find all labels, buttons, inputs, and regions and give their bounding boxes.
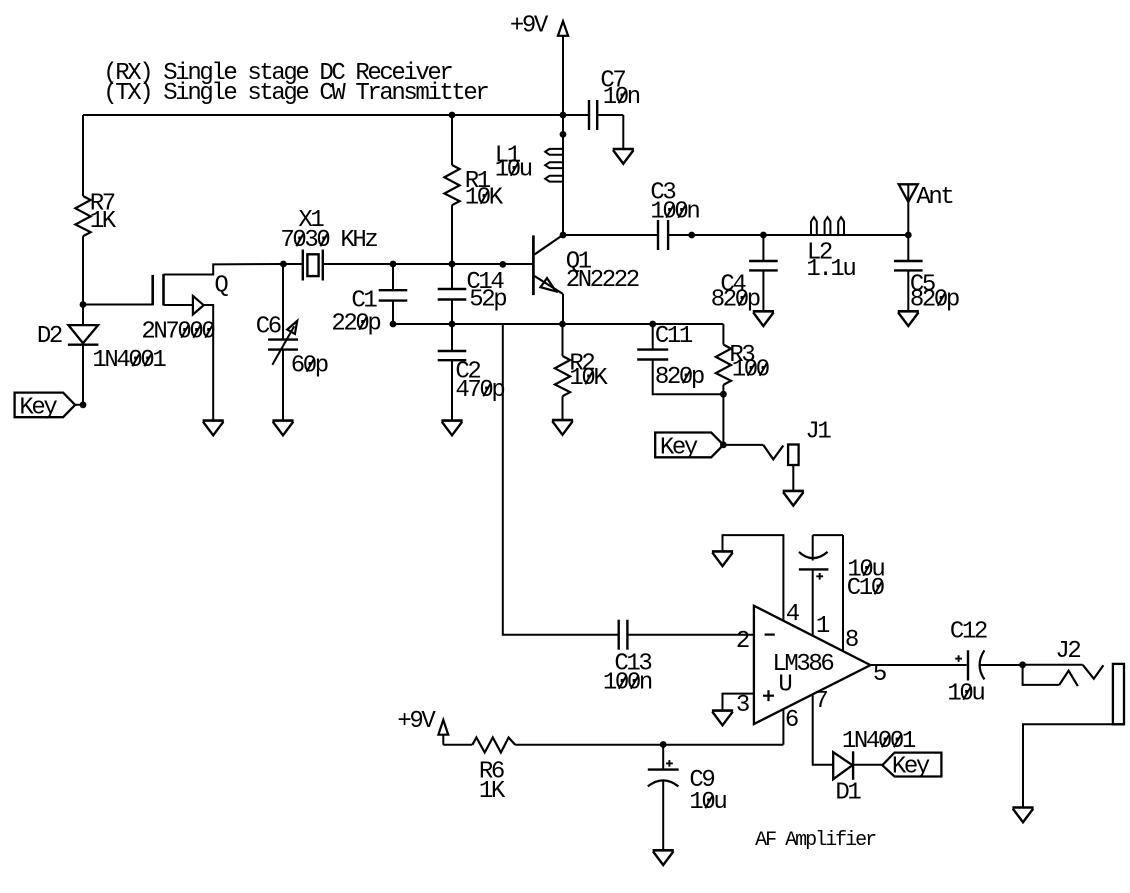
wire collector rail xyxy=(563,234,658,236)
wire C5 top lead xyxy=(907,235,909,261)
capacitor C9 xyxy=(648,760,727,816)
wire R3 bottom lead xyxy=(722,385,724,445)
pin 6 label xyxy=(785,707,798,734)
transistor Q1 emitter arrow xyxy=(541,278,556,291)
wire 2N7000 drain xyxy=(164,264,284,275)
svg-text:1: 1 xyxy=(816,613,830,640)
wire R3 top lead xyxy=(722,324,724,345)
wire X1 left lead xyxy=(283,263,302,265)
transistor Q1 collector xyxy=(534,235,563,255)
power +9V label (bottom) xyxy=(397,708,436,735)
wire C11 bottom lead xyxy=(653,360,724,395)
wire base rail X1 to Q1 xyxy=(323,263,534,265)
svg-text:D2: D2 xyxy=(37,323,62,350)
power +9V arrow (bottom) xyxy=(438,720,448,745)
svg-text:52p: 52p xyxy=(469,287,506,314)
wire C14 bottom lead xyxy=(451,300,453,325)
power +9V arrow (top) xyxy=(558,21,568,115)
wire C9 top lead xyxy=(662,745,664,770)
wire Key node to J1 xyxy=(723,444,763,446)
node junction (393,264) xyxy=(390,261,397,268)
pin 8 label xyxy=(845,627,858,654)
svg-text:+9V: +9V xyxy=(510,13,549,40)
power +9V label (top) xyxy=(510,13,549,40)
wire R7 top lead xyxy=(82,115,84,196)
label J2 xyxy=(1055,638,1080,665)
wire C1 bottom lead xyxy=(392,301,394,324)
svg-text:C6: C6 xyxy=(256,314,281,341)
jack J2 ring contact xyxy=(1059,671,1078,686)
wire Q1 emitter lead xyxy=(562,294,564,324)
wire mid rail y=324 xyxy=(393,323,723,325)
node junction (723.4,444.9) xyxy=(720,442,727,449)
label J1 xyxy=(805,419,831,446)
capacitor C2 xyxy=(438,351,505,404)
svg-text:2N2222: 2N2222 xyxy=(566,267,639,294)
wire C2 top lead xyxy=(451,324,453,351)
jack J2 tip contact xyxy=(1083,665,1104,679)
node junction (652.7,324) xyxy=(649,321,656,328)
svg-text:1K: 1K xyxy=(90,208,117,235)
wire tap to C13 xyxy=(503,324,618,635)
svg-text:220p: 220p xyxy=(331,311,380,338)
node junction (563,235) xyxy=(560,232,567,239)
antenna Ant symbol xyxy=(899,184,953,211)
capacitor C14 xyxy=(438,269,507,314)
wire C6 top lead xyxy=(282,264,284,340)
wire C4 top lead xyxy=(762,235,764,261)
wire R2 top lead xyxy=(562,324,564,356)
label C6 xyxy=(256,314,281,341)
wire D1 to Key flag xyxy=(853,764,882,766)
ground (2N7000 source) xyxy=(203,421,224,436)
capacitor C6 plates xyxy=(268,340,298,350)
flag Key (TX key) xyxy=(655,433,723,462)
jack J1 sleeve xyxy=(788,445,799,466)
jack J1 tip contact xyxy=(763,445,783,459)
resistor R6 xyxy=(472,738,515,806)
capacitor C1 xyxy=(331,288,407,338)
wire R7 to D2 xyxy=(82,236,84,325)
capacitor C4 xyxy=(711,261,778,314)
node junction (393,324) xyxy=(390,321,397,328)
title text line 2 xyxy=(103,80,488,107)
wire +9V column to L1 xyxy=(562,115,564,235)
pin 7 stub xyxy=(813,694,833,765)
transistor Q 2N7000 channel bar xyxy=(162,274,165,305)
label 2N7000 xyxy=(141,319,214,346)
flag Key (D1) xyxy=(882,753,941,781)
wire J2 ring lead xyxy=(1023,665,1060,685)
op-amp plus sign xyxy=(763,690,774,701)
capacitor C6 arrow xyxy=(272,321,297,365)
svg-text:Ant: Ant xyxy=(916,184,952,211)
flag Key (left) xyxy=(15,393,76,422)
node junction (562,324) xyxy=(559,321,566,328)
node junction (452,115) xyxy=(449,112,456,119)
transistor Q1 base bar xyxy=(532,235,535,295)
svg-text:J1: J1 xyxy=(805,419,831,446)
wire top rail y=115 xyxy=(83,114,563,116)
wire D2 to Key node xyxy=(82,345,84,405)
svg-text:7030 KHz: 7030 KHz xyxy=(280,227,377,254)
node junction (908.3,235) xyxy=(905,232,912,239)
svg-text:7: 7 xyxy=(814,688,827,715)
svg-text:J2: J2 xyxy=(1055,638,1080,665)
svg-text:Q: Q xyxy=(214,273,228,300)
node junction (691.7,235) xyxy=(688,232,695,239)
node junction (723.4,394.2) xyxy=(720,391,727,398)
ground (R2) xyxy=(552,420,573,435)
capacitor C3 xyxy=(650,180,699,251)
ground (J1) xyxy=(783,491,804,506)
diode D2 xyxy=(37,323,167,374)
inductor L2 xyxy=(806,217,855,283)
pin 6 stub xyxy=(782,709,784,745)
wire C6 bottom lead xyxy=(282,350,284,420)
wire J2 tip lead xyxy=(1023,664,1083,666)
wire R2 bottom lead xyxy=(562,396,564,419)
svg-text:820p: 820p xyxy=(655,364,704,391)
label Q1 xyxy=(566,249,639,295)
wire C4 bottom lead xyxy=(762,270,764,310)
capacitor C5 xyxy=(894,261,959,314)
wire C5 bottom lead xyxy=(907,270,909,310)
svg-text:100n: 100n xyxy=(650,199,699,226)
svg-text:1.1u: 1.1u xyxy=(806,256,855,283)
svg-text:+9V: +9V xyxy=(397,708,436,735)
resistor R2 xyxy=(555,351,609,397)
svg-text:C11: C11 xyxy=(655,323,693,350)
node junction (763.4,235) xyxy=(760,232,767,239)
capacitor C10 xyxy=(799,535,885,635)
wire C12 to J2 node xyxy=(980,664,1023,666)
node junction (452,264) xyxy=(449,261,456,268)
capacitor C10 top wire xyxy=(813,534,843,536)
ground (pin 4) xyxy=(712,551,733,566)
transistor Q source arrow xyxy=(193,296,204,315)
svg-text:4: 4 xyxy=(786,601,800,628)
diode D1 xyxy=(833,728,916,807)
capacitor C13 xyxy=(603,620,652,697)
svg-text:5: 5 xyxy=(873,661,886,688)
pin 8 stub xyxy=(842,535,844,651)
crystal X1 xyxy=(280,207,377,281)
ground (C9) xyxy=(653,850,674,865)
pin 7 label xyxy=(814,688,827,715)
node junction (83,404.8) xyxy=(75,401,86,408)
wire J2 sleeve to ground xyxy=(1023,724,1124,806)
resistor R7 xyxy=(75,191,116,237)
title text line 1 xyxy=(103,60,452,87)
svg-text:8: 8 xyxy=(845,627,858,654)
resistor R1 xyxy=(444,165,503,212)
svg-text:3: 3 xyxy=(736,692,749,719)
svg-text:1N4001: 1N4001 xyxy=(842,728,916,755)
wire antenna lead xyxy=(907,184,909,235)
wire C13 to pin2 xyxy=(629,634,754,636)
svg-text:6: 6 xyxy=(785,707,798,734)
ground (C5) xyxy=(898,311,919,326)
pin 3 stub xyxy=(723,694,754,710)
label Q xyxy=(214,273,228,300)
svg-text:820p: 820p xyxy=(910,287,959,314)
node junction (503,264) xyxy=(499,261,506,268)
op-amp labels xyxy=(772,651,833,699)
wire 2N7000 source lead xyxy=(164,304,193,306)
pin 5 output wire xyxy=(870,664,966,666)
wire C1 top lead xyxy=(392,264,394,290)
ground (J2) xyxy=(1012,808,1033,823)
svg-text:2: 2 xyxy=(736,628,749,655)
node junction (83,304) xyxy=(80,301,87,308)
ground (C2) xyxy=(441,421,462,436)
svg-text:470p: 470p xyxy=(455,377,504,404)
pin 5 label xyxy=(873,661,886,688)
node junction (283,264) xyxy=(280,261,287,268)
wire C7 right lead xyxy=(597,115,623,149)
node junction (563,115) xyxy=(560,112,567,119)
svg-text:(TX) Single stage CW Transmitt: (TX) Single stage CW Transmitter xyxy=(103,80,488,107)
svg-text:Key: Key xyxy=(892,754,930,781)
pin 2 label xyxy=(736,628,749,655)
label 60p xyxy=(291,353,328,380)
node junction (563,134) xyxy=(560,131,567,138)
pin 1 label xyxy=(816,613,830,640)
wire J1 to ground xyxy=(792,465,794,490)
resistor R3 xyxy=(716,342,769,385)
ground (C4) xyxy=(753,311,774,326)
svg-text:D1: D1 xyxy=(835,780,861,807)
svg-text:100n: 100n xyxy=(603,670,652,697)
svg-text:820p: 820p xyxy=(711,287,760,314)
wire source to ground xyxy=(204,305,214,420)
node junction (663.2,744.7) xyxy=(660,741,667,748)
svg-text:Key: Key xyxy=(660,435,698,462)
wire C3 to L2 xyxy=(668,234,908,236)
svg-text:2N7000: 2N7000 xyxy=(141,319,214,346)
svg-text:1K: 1K xyxy=(479,778,506,805)
op-amp minus sign xyxy=(765,633,775,635)
svg-text:AF Amplifier: AF Amplifier xyxy=(755,829,876,852)
transistor Q 2N7000 gate bar xyxy=(151,275,154,306)
wire C7 left lead xyxy=(563,114,589,116)
wire C14 top lead xyxy=(451,264,453,289)
jack J2 sleeve xyxy=(1113,664,1124,724)
wire bottom rail right xyxy=(515,744,783,746)
capacitor C12 xyxy=(947,619,987,708)
wire R1 top lead xyxy=(451,115,453,165)
capacitor C11 xyxy=(637,323,704,391)
ground (pin 3) xyxy=(712,711,733,726)
pin 3 label xyxy=(736,692,749,719)
wire C2 bottom lead xyxy=(451,360,453,420)
wire bottom rail left xyxy=(443,744,472,746)
caption AF Amplifier xyxy=(755,829,876,852)
svg-text:U: U xyxy=(778,672,791,699)
pin 4 label xyxy=(786,601,800,628)
transistor Q1 emitter xyxy=(534,276,563,294)
svg-text:1N4001: 1N4001 xyxy=(92,347,166,374)
wire C11 top lead xyxy=(652,324,654,350)
wire R1 bottom lead xyxy=(451,205,453,264)
node junction (452,324) xyxy=(449,321,456,328)
pin 4 stub xyxy=(723,535,784,621)
svg-text:C12: C12 xyxy=(950,619,987,646)
wire 2N7000 gate lead xyxy=(83,304,153,306)
op-amp U1 LM386 body xyxy=(754,606,871,724)
inductor L1 xyxy=(495,143,563,184)
capacitor C7 xyxy=(589,68,640,131)
svg-text:Key: Key xyxy=(19,395,57,422)
node junction (1022.6,665) xyxy=(1019,661,1026,668)
ground (C7) xyxy=(613,149,634,164)
wire C9 bottom lead xyxy=(662,781,664,850)
ground (C6) xyxy=(272,421,293,436)
